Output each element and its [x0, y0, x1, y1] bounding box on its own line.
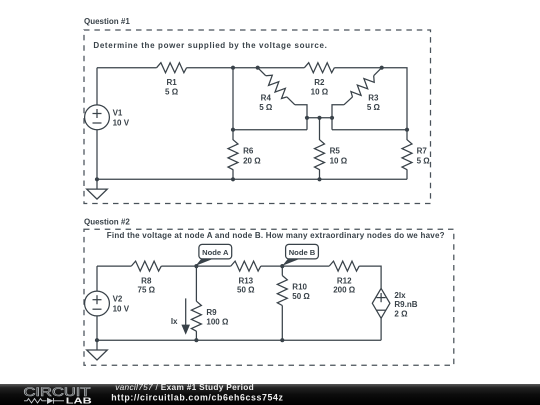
svg-text:http://circuitlab.com/cb6eh6cs: http://circuitlab.com/cb6eh6css754z — [111, 392, 283, 402]
svg-text:5 Ω: 5 Ω — [165, 87, 179, 96]
svg-text:R9: R9 — [206, 308, 217, 317]
svg-text:R1: R1 — [166, 78, 177, 87]
svg-text:50 Ω: 50 Ω — [292, 292, 310, 301]
svg-text:R12: R12 — [337, 276, 352, 285]
svg-text:Determine the power supplied b: Determine the power supplied by the volt… — [93, 41, 327, 50]
svg-text:R9.nB: R9.nB — [394, 300, 417, 309]
svg-text:20 Ω: 20 Ω — [243, 156, 261, 165]
svg-text:R3: R3 — [368, 94, 379, 103]
svg-text:5 Ω: 5 Ω — [417, 156, 431, 165]
svg-text:R2: R2 — [314, 78, 325, 87]
svg-text:5 Ω: 5 Ω — [367, 103, 381, 112]
svg-text:10 V: 10 V — [113, 119, 130, 128]
svg-text:Question #1: Question #1 — [84, 17, 130, 26]
svg-text:R13: R13 — [238, 276, 253, 285]
svg-text:Ix: Ix — [171, 317, 178, 326]
svg-text:2Ix: 2Ix — [394, 291, 406, 300]
svg-text:R7: R7 — [417, 147, 428, 156]
svg-text:10 Ω: 10 Ω — [311, 87, 329, 96]
svg-text:vancil757 / Exam #1 Study Peri: vancil757 / Exam #1 Study Period — [115, 382, 254, 392]
svg-text:Node B: Node B — [289, 248, 316, 257]
svg-text:75 Ω: 75 Ω — [138, 286, 156, 295]
svg-text:10 Ω: 10 Ω — [330, 156, 348, 165]
svg-text:Node A: Node A — [202, 248, 229, 257]
svg-text:5 Ω: 5 Ω — [259, 103, 273, 112]
svg-text:100 Ω: 100 Ω — [206, 318, 229, 327]
svg-text:R8: R8 — [141, 276, 152, 285]
svg-text:R5: R5 — [330, 147, 341, 156]
svg-text:R10: R10 — [292, 282, 307, 291]
svg-text:10 V: 10 V — [113, 305, 130, 314]
svg-text:50 Ω: 50 Ω — [237, 286, 255, 295]
svg-text:Question #2: Question #2 — [84, 218, 130, 227]
svg-text:R6: R6 — [243, 147, 254, 156]
svg-text:200 Ω: 200 Ω — [333, 286, 356, 295]
svg-text:V1: V1 — [113, 108, 123, 117]
svg-text:2 Ω: 2 Ω — [394, 309, 408, 318]
svg-text:V2: V2 — [113, 295, 123, 304]
svg-text:LAB: LAB — [66, 395, 92, 405]
svg-text:R4: R4 — [261, 94, 272, 103]
svg-text:Find the voltage at node A and: Find the voltage at node A and node B. H… — [107, 231, 445, 240]
